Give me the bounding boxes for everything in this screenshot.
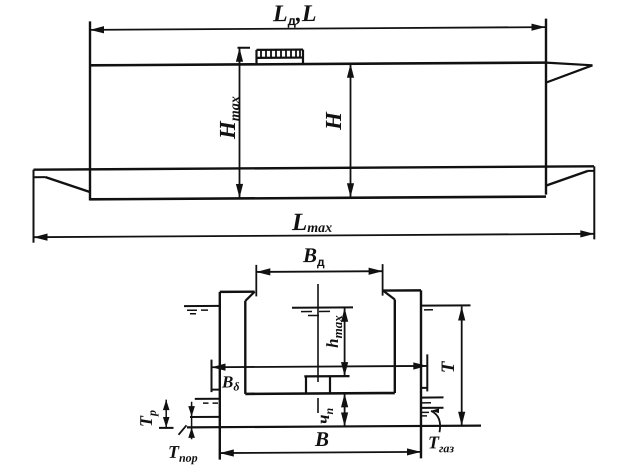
B_d extension line left (255, 265, 257, 297)
dimension line H (350, 64, 352, 198)
T_gas curved leader (431, 411, 440, 433)
left tower outer wall / B extension (219, 292, 221, 460)
right waterline T_gas level (421, 407, 444, 409)
inner waterline dashes (301, 311, 312, 313)
deck wing top edge right (546, 62, 593, 65)
svg-text:H: H (321, 111, 346, 131)
left waterline T level (184, 305, 220, 307)
keel block left edge (305, 376, 307, 393)
left tower top (220, 290, 255, 293)
dimension line ch_p (344, 393, 346, 426)
dimension line T (461, 307, 463, 426)
right tower outer wall / B extension (420, 290, 422, 458)
dimension line B_b (212, 366, 428, 367)
dimension line B (220, 452, 421, 453)
pontoon left tip edge / extension line (33, 170, 35, 243)
right tower inner wall (394, 300, 396, 394)
H_max top reference tick (238, 47, 251, 49)
right tower top (383, 289, 421, 292)
pontoon deck line (34, 166, 595, 169)
left waterline T_r level (195, 398, 220, 400)
dimension line T_por (191, 402, 193, 440)
dimension line B_d (256, 270, 382, 273)
inner waterline (292, 306, 353, 308)
dimension line H_max (239, 48, 241, 198)
right tower chamfer (383, 291, 395, 300)
pontoon bow slope right (546, 171, 588, 186)
dimension line h_max (344, 308, 346, 376)
svg-text:Т: Т (438, 360, 459, 373)
right waterline T_r level (421, 396, 444, 398)
pontoon bow slope left (46, 177, 90, 192)
T_r bottom tick (159, 427, 174, 429)
left waterline T_por level (190, 416, 220, 418)
left fender bracket (211, 360, 213, 393)
top deck line (90, 63, 546, 66)
pontoon deck baseline (245, 392, 394, 395)
pontoon right tip edge / extension line (593, 166, 595, 239)
superstructure railing posts (260, 50, 262, 58)
dimension line L_max (34, 234, 595, 237)
dimension line T_r (165, 400, 167, 428)
left tower inner wall (244, 301, 246, 394)
pontoon left tip bottom (34, 176, 46, 178)
pontoon bottom line (90, 197, 547, 200)
dock tower left wall / extension line (89, 21, 91, 200)
left tower chamfer (245, 292, 254, 301)
svg-text:В: В (314, 427, 329, 451)
dock bottom baseline (187, 426, 481, 428)
centerline axis (317, 284, 319, 382)
B_d extension line right (382, 264, 384, 296)
pontoon right tip bottom (588, 170, 594, 172)
keel block right edge (329, 376, 331, 393)
superstructure railing box (257, 48, 304, 50)
right waterline T level (421, 304, 471, 306)
dimension line L_d,L (90, 27, 546, 30)
T_por slanted tick (179, 425, 187, 435)
dock tower right wall / extension line (545, 19, 547, 195)
deck wing diagonal right (546, 65, 593, 82)
right fender bracket (426, 354, 428, 391)
keel block top line (304, 375, 349, 377)
